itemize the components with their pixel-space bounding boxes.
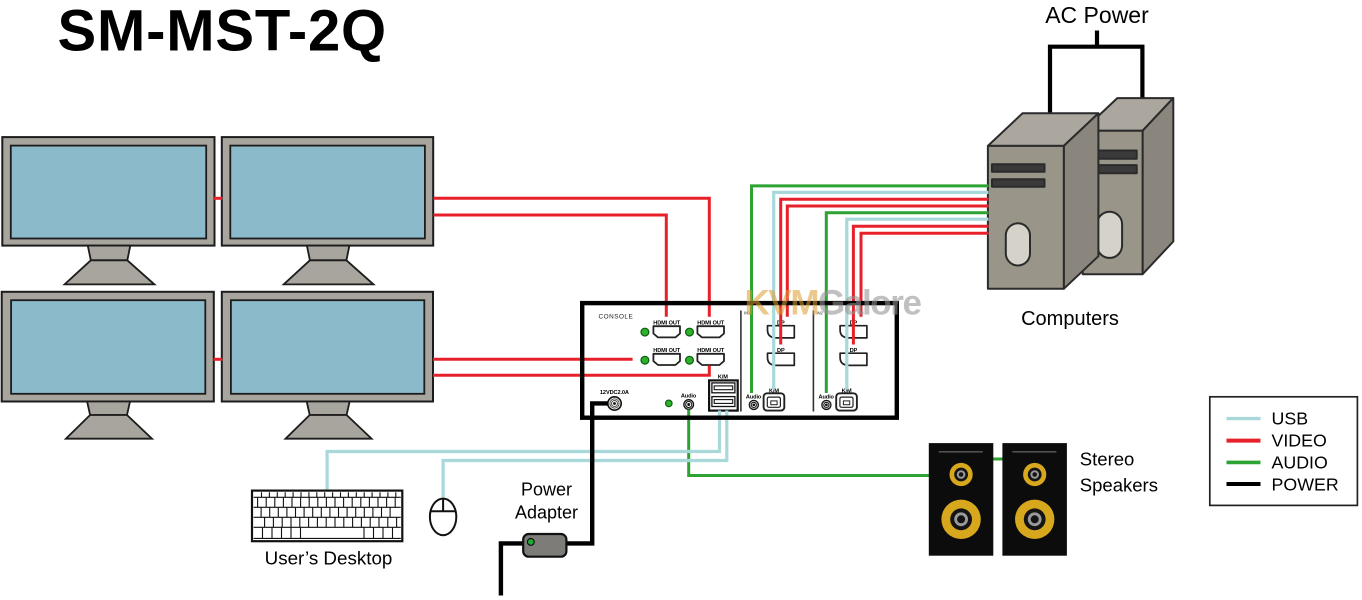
- red video wire monitor4 to HDMI OUT 2 row2: [433, 366, 709, 376]
- mouse: [430, 499, 456, 536]
- usb wire console to keyboard: [327, 411, 719, 491]
- svg-text:CONSOLE: CONSOLE: [599, 314, 634, 321]
- green audio wire computer2 to IN2: [826, 213, 988, 393]
- power LED: [666, 400, 673, 407]
- svg-text:12VDC2.0A: 12VDC2.0A: [600, 390, 629, 396]
- svg-text:AC Power: AC Power: [1045, 2, 1149, 28]
- green wire between speakers: [992, 458, 1004, 461]
- svg-text:POWER: POWER: [1272, 475, 1339, 495]
- IN section separator lines: [740, 311, 742, 412]
- watermark KVMGalore: [745, 284, 922, 323]
- legend USB line: [1227, 417, 1261, 420]
- keyboard: [252, 491, 402, 542]
- legend AUDIO line: [1227, 461, 1261, 465]
- svg-text:AUDIO: AUDIO: [1272, 453, 1328, 473]
- usb wire computer1 to IN1 K/M: [774, 192, 989, 389]
- legend VIDEO line: [1227, 439, 1261, 443]
- svg-text:Stereo: Stereo: [1080, 449, 1135, 470]
- legend labels: [1272, 409, 1339, 495]
- monitor M1 (top-left): [2, 137, 214, 284]
- KVM switch box fill: [582, 303, 897, 418]
- green audio wire console to speakers: [689, 410, 930, 476]
- svg-text:Power: Power: [521, 480, 572, 500]
- black power wire KVM to power adapter: [565, 403, 609, 543]
- monitor M3 (bottom-left): [2, 292, 214, 439]
- svg-text:Audio: Audio: [746, 395, 762, 401]
- svg-text:Adapter: Adapter: [515, 503, 578, 523]
- red video wire computer1 to IN1 DP row2: [787, 206, 988, 317]
- legend POWER line: [1227, 482, 1261, 486]
- svg-text:USB: USB: [1272, 409, 1309, 429]
- computer tower 1 (front): [988, 113, 1099, 288]
- legend box: [1210, 397, 1358, 506]
- monitor M4 (bottom-right): [222, 292, 433, 439]
- red video wire monitor4 to HDMI OUT 1 row2: [433, 358, 633, 361]
- speaker 2: [1002, 443, 1067, 556]
- red video wire monitor2 to HDMI OUT 1 row1: [433, 215, 666, 317]
- svg-text:Audio: Audio: [819, 395, 835, 401]
- usb wire console to mouse: [443, 411, 727, 499]
- red video wire computer2 to IN2 DP row2: [861, 233, 989, 317]
- red video wire computer2 to IN2 DP row1: [853, 226, 988, 344]
- red video wire monitor2 to HDMI OUT 2 row1: [433, 198, 709, 316]
- AC power wires: [1050, 31, 1142, 114]
- svg-text:Computers: Computers: [1021, 308, 1119, 330]
- svg-text:VIDEO: VIDEO: [1272, 431, 1327, 451]
- svg-text:Speakers: Speakers: [1080, 474, 1158, 495]
- computer tower 2 (back): [1083, 98, 1174, 274]
- red video wire monitor3-monitor4: [214, 358, 223, 361]
- svg-text:SM-MST-2Q: SM-MST-2Q: [58, 0, 387, 63]
- red video wire computer1 to IN1 DP row1: [781, 199, 989, 344]
- power adapter device: [523, 534, 566, 557]
- monitor M2 (top-right): [222, 137, 433, 284]
- red video wire monitor1-monitor2: [214, 197, 222, 200]
- svg-text:Audio: Audio: [681, 394, 697, 400]
- speaker 1: [929, 443, 994, 556]
- KVM switch box border: [582, 303, 897, 418]
- black power wire adapter to mains: [501, 543, 525, 595]
- green audio wire computer1 to IN1: [752, 186, 989, 393]
- svg-text:KVMGalore: KVMGalore: [745, 284, 922, 323]
- svg-text:User’s Desktop: User’s Desktop: [265, 548, 393, 569]
- usb wire computer2 to IN2 K/M: [847, 219, 989, 389]
